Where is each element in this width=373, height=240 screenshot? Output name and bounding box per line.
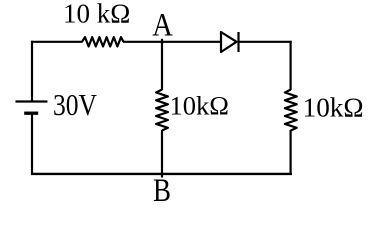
wire top-left segment (corner to R1) — [31, 41, 83, 43]
resistor R1 10 kOhm horizontal — [82, 37, 124, 46]
battery V1 short plate (negative) — [24, 112, 38, 115]
wire right upper segment (corner to R3) — [290, 41, 292, 90]
wire bottom segment (full width) — [31, 173, 292, 175]
svg-text:30V: 30V — [53, 88, 97, 122]
svg-text:B: B — [153, 173, 171, 207]
wire middle lower segment (R2 to node B) — [161, 130, 163, 178]
wire top middle segment (R1 to diode anode) — [123, 41, 221, 43]
svg-text:A: A — [152, 8, 173, 44]
wire top-right segment (diode cathode to corner) — [239, 41, 292, 43]
diode D1 triangle — [221, 32, 237, 52]
svg-text:10kΩ: 10kΩ — [303, 91, 364, 122]
resistor R3 10kOhm vertical right — [285, 90, 297, 131]
resistor R2 10kOhm vertical middle — [156, 90, 168, 131]
svg-text:10kΩ: 10kΩ — [170, 91, 229, 121]
wire right lower segment (R3 to corner) — [290, 130, 292, 175]
wire left lower segment (battery to corner) — [31, 113, 33, 175]
wire left upper segment (corner to battery) — [31, 41, 33, 102]
battery V1 long plate (positive) — [16, 100, 48, 102]
wire middle upper segment (node A to R2) — [161, 42, 163, 90]
diode D1 cathode bar — [237, 32, 239, 52]
node A junction stub — [161, 39, 163, 44]
svg-text:10 kΩ: 10 kΩ — [63, 0, 130, 28]
